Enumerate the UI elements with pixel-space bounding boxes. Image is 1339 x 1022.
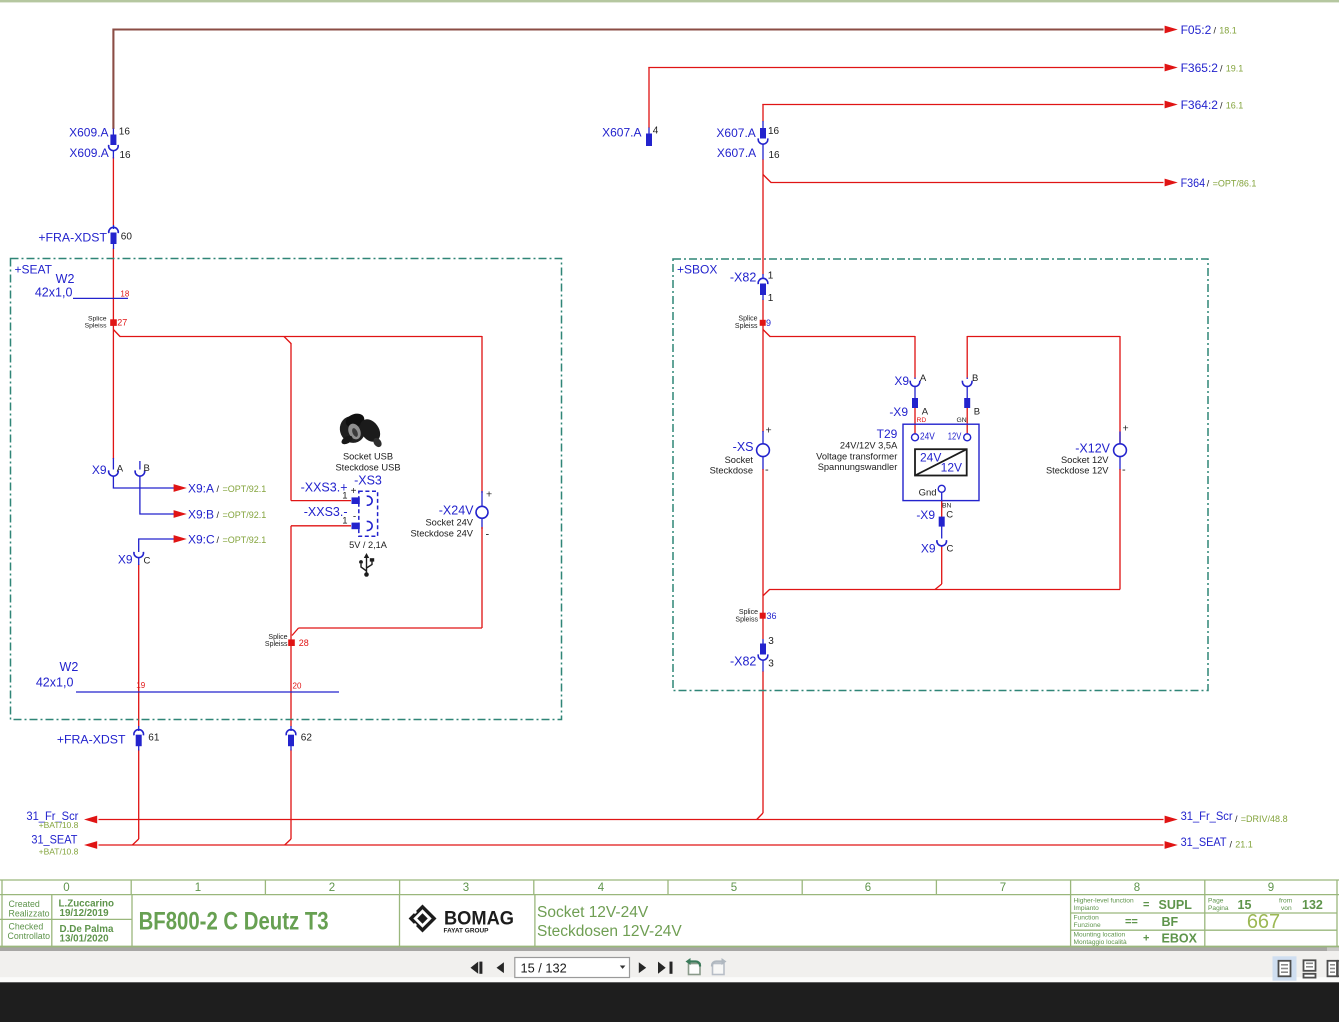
svg-text:+: + — [351, 486, 357, 497]
splice 9 — [760, 320, 766, 326]
svg-text:9: 9 — [1268, 882, 1274, 894]
wire: -XS blue stub bottom — [762, 456, 764, 470]
svg-text:Steckdose 12V: Steckdose 12V — [1046, 466, 1109, 476]
connector +FRA-XDST pin 62 — [286, 726, 296, 751]
svg-text:Page: Page — [1208, 898, 1224, 905]
svg-text:6: 6 — [865, 882, 871, 894]
svg-text:F05:2: F05:2 — [1181, 23, 1212, 37]
socket -X24V circle — [476, 506, 488, 518]
wire: -X24V minus down — [481, 527, 483, 628]
wire: -X82:1 down to splice 9 — [762, 300, 764, 321]
continuous scrolling view button — [1304, 960, 1316, 977]
svg-text:-: - — [486, 528, 490, 540]
svg-text:-XXS3.-: -XXS3.- — [304, 505, 348, 519]
connector X9 cup C — [134, 552, 144, 565]
svg-text:W2: W2 — [60, 660, 79, 674]
svg-text:A: A — [117, 463, 124, 474]
svg-text:=DRIV/48.8: =DRIV/48.8 — [1241, 814, 1288, 824]
wire: F364:2 horizontal — [762, 104, 1163, 106]
svg-text:-X82: -X82 — [730, 270, 756, 284]
two page view button (clipped) — [1328, 961, 1339, 977]
svg-text:C: C — [946, 509, 953, 520]
svg-text:4: 4 — [598, 882, 605, 894]
connector +FRA-XDST pin 61 — [134, 726, 144, 751]
svg-text:=OPT/86.1: =OPT/86.1 — [1213, 179, 1257, 189]
connector X609.A pin 16 (pin + cup) — [109, 129, 119, 159]
svg-text:12V: 12V — [941, 460, 962, 474]
svg-text:-XXS3.+: -XXS3.+ — [301, 480, 348, 494]
svg-text:31_SEAT: 31_SEAT — [31, 833, 78, 847]
contact -XXS3.- (pin + cup) — [352, 521, 373, 530]
splice 36 — [760, 613, 766, 619]
svg-text:-: - — [353, 512, 356, 523]
wire: X609.A:16 down to +FRA-XDST:60 — [112, 157, 114, 226]
photo: USB socket — [336, 411, 385, 448]
single page view button (active) — [1273, 956, 1297, 980]
svg-text:18.1: 18.1 — [1219, 26, 1237, 36]
wire: F365 branch vertical at X607.A pin 4 — [648, 68, 650, 129]
gray band below sheet — [0, 947, 1339, 951]
wire: vertical from F364:2 down to X607.A pin 16 — [762, 105, 764, 122]
svg-text:Gnd: Gnd — [919, 488, 937, 499]
svg-text:=OPT/92.1: =OPT/92.1 — [223, 510, 267, 520]
svg-text:19/12/2019: 19/12/2019 — [60, 908, 110, 919]
svg-text:8: 8 — [1134, 882, 1140, 894]
splice 28 — [288, 639, 295, 646]
svg-text:C: C — [144, 556, 151, 567]
svg-text:Impianto: Impianto — [1074, 905, 1100, 912]
svg-text:16: 16 — [119, 127, 131, 138]
svg-text:F364:2: F364:2 — [1181, 98, 1219, 112]
next view icon (disabled) — [712, 958, 727, 975]
svg-text:Montaggio località: Montaggio località — [1074, 939, 1127, 946]
svg-text:Steckdosen 12V-24V: Steckdosen 12V-24V — [537, 923, 682, 940]
svg-text:Socket 12V-24V: Socket 12V-24V — [537, 904, 649, 921]
svg-text:1: 1 — [768, 293, 774, 304]
svg-text:42x1,0: 42x1,0 — [36, 676, 74, 690]
connector X607.A pin 16 (pin + cup) — [758, 121, 768, 160]
svg-text:28: 28 — [299, 638, 309, 648]
contact -XXS3.+ (pin + cup) — [352, 496, 373, 505]
svg-text:X9:A: X9:A — [188, 481, 214, 495]
svg-text:16: 16 — [769, 150, 781, 161]
svg-text:Voltage transformer: Voltage transformer — [816, 452, 897, 462]
transformer symbol (rect + diagonal) — [915, 449, 967, 475]
wire: -X12V blue stub bottom — [1119, 457, 1121, 471]
wire: +FRA-XDST:60 down to splice 27 — [112, 249, 114, 320]
svg-text:X9: X9 — [921, 542, 936, 556]
svg-text:24V: 24V — [920, 451, 941, 465]
svg-text:=: = — [1143, 899, 1149, 911]
dark bottom bar — [0, 982, 1339, 1022]
svg-text:from: from — [1279, 898, 1293, 905]
previous page button — [497, 962, 504, 973]
column numbers — [63, 882, 1274, 894]
svg-text:BF: BF — [1162, 915, 1179, 929]
svg-text:4: 4 — [653, 126, 659, 137]
svg-text:3: 3 — [768, 658, 774, 669]
svg-text:3: 3 — [463, 882, 469, 894]
svg-text:+FRA-XDST: +FRA-XDST — [38, 230, 107, 244]
svg-text:-XS3: -XS3 — [354, 474, 382, 488]
ref arrow F364 — [1165, 179, 1178, 187]
svg-text:42x1,0: 42x1,0 — [35, 285, 73, 299]
title block table — [0, 880, 1339, 947]
svg-text:+BAT/10.8: +BAT/10.8 — [39, 820, 79, 830]
svg-text:Splice: Splice — [738, 316, 757, 323]
svg-text:Higher-level function: Higher-level function — [1074, 898, 1134, 905]
wire: +24V distribution rail in +SEAT — [120, 336, 483, 338]
wire: F365:2 horizontal — [648, 67, 1163, 69]
wire: X9:B cup to ref arrow (blue) — [140, 476, 175, 514]
svg-text:SUPL: SUPL — [1159, 898, 1193, 912]
svg-text:BF800-2 C Deutz T3: BF800-2 C Deutz T3 — [139, 907, 329, 935]
svg-text:Splice: Splice — [88, 315, 107, 322]
svg-text:Socket USB: Socket USB — [343, 451, 393, 461]
wire: 31_SEAT rail — [99, 844, 1164, 846]
svg-text:1: 1 — [195, 882, 201, 894]
wire: splice 9 branch diagonal — [763, 330, 770, 337]
svg-text:16: 16 — [768, 126, 780, 137]
svg-text:5: 5 — [731, 882, 737, 894]
ref arrow X9:A — [174, 484, 187, 492]
svg-text:3: 3 — [768, 636, 774, 647]
wire: F364 horizontal — [771, 182, 1164, 184]
svg-text:EBOX: EBOX — [1162, 932, 1198, 946]
wire: T29 X9:B pin to 12V terminal — [966, 408, 968, 434]
wire: -XXS3.- vertical down to splice 28 — [290, 526, 292, 640]
connector -X9 pin B — [964, 398, 970, 408]
svg-text:BOMAG: BOMAG — [444, 908, 514, 930]
svg-text:von: von — [1281, 905, 1292, 912]
wire: vertical at x=482 down to -X24V + — [481, 336, 483, 493]
ref arrow 31_SEAT (right) — [1165, 841, 1178, 849]
svg-text:==: == — [1125, 916, 1138, 928]
connector X607.A pin 4 — [648, 128, 650, 135]
svg-text:60: 60 — [121, 232, 133, 243]
svg-text:36: 36 — [767, 611, 777, 621]
terminal Gnd circle — [938, 485, 945, 492]
connector -X82 pin 3 (pin + cup) — [758, 639, 768, 672]
connector X9 cup B — [135, 461, 145, 476]
wire: -X82:3 down out of +SBOX to 31_Fr_Scr rail — [762, 671, 764, 813]
svg-text:16.1: 16.1 — [1226, 101, 1244, 111]
svg-text:+SBOX: +SBOX — [677, 262, 717, 276]
svg-text:0: 0 — [63, 882, 69, 894]
ref arrow F364:2 — [1165, 101, 1178, 109]
ref arrow X9:B — [174, 510, 187, 518]
connector X9 cup A — [109, 458, 119, 476]
svg-text:7: 7 — [1000, 882, 1006, 894]
wire: splice 27 branch diagonal — [113, 330, 120, 337]
svg-text:RD: RD — [917, 417, 927, 424]
ref arrow 31_Fr_Scr (right) — [1165, 816, 1178, 824]
svg-text:Splice: Splice — [739, 609, 758, 616]
wire: T29 Gnd down to -X9:C — [941, 501, 943, 517]
svg-text:Steckdose USB: Steckdose USB — [335, 463, 400, 473]
svg-text:+: + — [766, 424, 772, 436]
ref arrow F365:2 — [1165, 64, 1178, 72]
wire: +FRA-XDST:61 down to 31_SEAT rail — [138, 750, 140, 840]
svg-text:Socket 12V: Socket 12V — [1061, 455, 1109, 465]
ref arrow 31_SEAT (left) — [84, 841, 97, 849]
svg-text:Socket: Socket — [725, 455, 754, 465]
wire: 31_Fr_Scr rail — [99, 819, 1164, 821]
first page button — [471, 962, 483, 974]
svg-text:-X9: -X9 — [889, 405, 908, 419]
svg-text:21.1: 21.1 — [1235, 840, 1253, 850]
wire: horizontal from -XXS3.- pin — [291, 525, 351, 527]
svg-text:Funzione: Funzione — [1074, 922, 1101, 929]
page number input — [515, 958, 630, 978]
socket -X12V circle — [1114, 444, 1127, 457]
svg-text:31_SEAT: 31_SEAT — [1181, 835, 1228, 849]
svg-text:15 / 132: 15 / 132 — [521, 960, 567, 975]
wire: T29 Gnd terminal down (blue stub) — [941, 492, 943, 502]
toolbar background — [0, 951, 1339, 977]
svg-text:X9:B: X9:B — [188, 507, 214, 521]
svg-text:19: 19 — [136, 681, 145, 690]
wire: -X24V blue stub bottom — [481, 518, 483, 529]
svg-text:Mounting location: Mounting location — [1074, 932, 1126, 939]
svg-text:X607.A: X607.A — [716, 126, 755, 140]
svg-text:-: - — [765, 464, 769, 476]
wire: drop to X9:A cup (T29) — [914, 336, 916, 378]
terminal 24V circle — [912, 434, 919, 441]
wire: jog onto SBOX ground rail — [935, 584, 942, 590]
wire: splice 28 down through W2 to +FRA-XDST:62 — [290, 646, 292, 727]
svg-text:62: 62 — [301, 733, 313, 744]
wire: horizontal into -XXS3.+ pin — [291, 500, 351, 502]
ref arrow X9:C — [174, 535, 187, 543]
connector -X82 pin 1 (cup above + pin) — [758, 274, 768, 300]
wire: +FRA-XDST:62 down to 31_SEAT rail — [290, 750, 292, 840]
wire: X9:C (SBOX) cup down — [941, 546, 943, 584]
wire: splice 27 down to X9:A cup — [112, 326, 114, 460]
svg-text:X9: X9 — [894, 374, 909, 388]
scrollbar corner notch — [1327, 947, 1339, 951]
svg-text:=OPT/92.1: =OPT/92.1 — [223, 535, 267, 545]
wire: X9:C red down through W2 to +FRA-XDST:61 — [138, 564, 140, 727]
svg-text:5V / 2,1A: 5V / 2,1A — [349, 540, 388, 550]
wire: drop to X9:B cup (T29) — [966, 336, 968, 378]
sheet top border line — [0, 0, 1339, 2]
svg-text:+FRA-XDST: +FRA-XDST — [57, 733, 126, 747]
wire: -X24V return horizontal — [299, 627, 483, 629]
svg-text:X9: X9 — [118, 553, 133, 567]
svg-text:F364: F364 — [1181, 176, 1206, 190]
svg-text:C: C — [947, 544, 954, 555]
wire: -X24V blue stub top — [481, 491, 483, 507]
splice 27 — [110, 319, 117, 326]
next page button — [639, 962, 646, 973]
cable W2 top line — [73, 297, 128, 299]
voltage transformer T29 box — [903, 424, 979, 500]
wire: jog onto 31_SEAT rail (61) — [132, 839, 138, 845]
svg-text:=OPT/92.1: =OPT/92.1 — [223, 484, 267, 494]
svg-text:1: 1 — [342, 490, 347, 501]
wire: X9:A cup to ref arrow (blue) — [113, 476, 174, 488]
svg-text:-X24V: -X24V — [439, 504, 474, 518]
svg-text:Function: Function — [1074, 915, 1100, 922]
svg-text:Realizzato: Realizzato — [9, 909, 50, 919]
dropdown arrow — [620, 966, 626, 969]
svg-text:FAYAT GROUP: FAYAT GROUP — [444, 928, 490, 935]
svg-text:Spleiss: Spleiss — [735, 323, 758, 330]
svg-text:Spannungswandler: Spannungswandler — [818, 462, 898, 472]
svg-text:15: 15 — [1238, 898, 1252, 912]
svg-text:667: 667 — [1247, 911, 1280, 933]
wire: jog from ground rail to main drop — [763, 590, 769, 596]
location box +SEAT — [11, 259, 562, 720]
svg-text:GN: GN — [957, 417, 967, 424]
wire: 24V rail to T29 X9:A — [770, 336, 916, 338]
svg-text:Spleiss: Spleiss — [265, 641, 288, 648]
svg-text:A: A — [922, 407, 929, 418]
last page button — [658, 962, 673, 974]
cable W2 bottom line — [76, 691, 339, 693]
svg-text:X609.A: X609.A — [69, 125, 108, 139]
connector -X9 pin C — [939, 517, 945, 527]
wire: brown vertical drop to X609.A — [112, 29, 114, 130]
wire: jog onto 31_Fr_Scr rail — [757, 813, 763, 820]
device outline -XS3 (dashed) — [359, 491, 378, 536]
svg-text:+: + — [1143, 933, 1149, 945]
svg-text:A: A — [920, 373, 927, 384]
ref arrow 31_Fr_Scr (left) — [84, 816, 97, 824]
USB symbol — [359, 553, 374, 577]
svg-text:Spleiss: Spleiss — [85, 323, 108, 330]
wire: X9:C ref arrow to cup (blue) — [139, 539, 175, 552]
svg-text:+: + — [486, 489, 492, 501]
svg-text:W2: W2 — [56, 272, 75, 286]
wire: F05 feed (brown) horizontal to F05:2 — [113, 28, 1163, 30]
svg-text:X9: X9 — [92, 463, 107, 477]
svg-text:2: 2 — [329, 882, 335, 894]
svg-text:Socket 24V: Socket 24V — [425, 517, 473, 527]
svg-text:61: 61 — [148, 733, 160, 744]
svg-text:16: 16 — [120, 150, 132, 161]
wire: vertical down to -XXS3.+ — [290, 343, 292, 501]
svg-text:9: 9 — [766, 318, 771, 328]
wire: splice 36 down to -X82:3 — [762, 618, 764, 639]
svg-text:B: B — [974, 407, 980, 418]
svg-text:X609.A: X609.A — [69, 146, 108, 160]
wire: branch diagonal to -XXS3 at x=291 — [284, 337, 291, 344]
wire: return diagonal into splice 28 — [292, 628, 299, 636]
svg-text:-XS: -XS — [733, 440, 754, 454]
svg-text:-X82: -X82 — [730, 655, 756, 669]
svg-text:-X9: -X9 — [916, 508, 935, 522]
svg-text:1: 1 — [768, 271, 774, 282]
wire: -XS blue stub top — [762, 431, 764, 445]
wire: -X12V blue stub top — [1119, 432, 1121, 446]
socket -XS circle — [757, 444, 770, 457]
wire: jog onto 31_SEAT rail (62) — [285, 839, 291, 845]
svg-text:13/01/2020: 13/01/2020 — [60, 934, 110, 945]
svg-text:X607.A: X607.A — [717, 146, 756, 160]
svg-text:27: 27 — [117, 318, 127, 328]
wire: -XS minus down to splice 36 — [762, 469, 764, 613]
svg-text:Steckdose: Steckdose — [710, 466, 753, 476]
connector X9 cup A (SBOX) — [910, 378, 920, 399]
svg-text:19.1: 19.1 — [1226, 64, 1244, 74]
svg-text:F365:2: F365:2 — [1181, 61, 1219, 75]
connector +FRA-XDST pin 60 (cup above + pin) — [109, 225, 119, 249]
connector -X9 pin A — [912, 398, 918, 408]
svg-text:X607.A: X607.A — [602, 126, 641, 140]
svg-text:31_Fr_Scr: 31_Fr_Scr — [1181, 809, 1233, 823]
svg-text:+SEAT: +SEAT — [15, 262, 53, 276]
svg-text:-X12V: -X12V — [1075, 442, 1110, 456]
connector X9 cup C (SBOX) — [937, 527, 947, 548]
svg-text:Pagina: Pagina — [1208, 905, 1229, 912]
svg-text:20: 20 — [293, 682, 302, 691]
svg-text:24V: 24V — [920, 431, 935, 442]
wire: splice 9 down to -XS + — [762, 326, 764, 433]
svg-text:+BAT/10.8: +BAT/10.8 — [39, 847, 79, 857]
connector X9 cup B (SBOX) — [962, 378, 972, 399]
svg-text:Controllato: Controllato — [8, 931, 51, 941]
ref arrow F05:2 — [1165, 26, 1178, 34]
terminal 12V circle — [964, 434, 971, 441]
BOMAG logo — [408, 904, 436, 932]
svg-text:T29: T29 — [877, 427, 898, 441]
wire: SBOX ground rail — [769, 589, 1120, 591]
wire: F364 branch diagonal — [763, 175, 771, 183]
wire: -X12V vertical from rail — [1119, 336, 1121, 445]
svg-text:132: 132 — [1302, 898, 1323, 912]
wire: -X12V minus down to ground rail — [1119, 469, 1121, 590]
svg-text:18: 18 — [120, 289, 129, 298]
svg-text:Steckdose 24V: Steckdose 24V — [410, 529, 473, 539]
svg-text:12V: 12V — [948, 431, 962, 442]
location box +SBOX — [673, 259, 1208, 691]
wire: T29 X9:A pin to 24V terminal — [914, 408, 916, 434]
wire: X607.A:16 down to -X82:1 — [762, 159, 764, 275]
svg-text:+: + — [1123, 423, 1129, 435]
svg-text:1: 1 — [342, 516, 347, 527]
previous view icon — [686, 958, 701, 975]
svg-text:24V/12V 3,5A: 24V/12V 3,5A — [840, 440, 898, 450]
wire: 12V rail from X9:B to -X12V — [967, 336, 1120, 338]
svg-text:B: B — [144, 463, 150, 474]
svg-text:B: B — [972, 373, 978, 384]
svg-text:X9:C: X9:C — [188, 532, 215, 546]
svg-text:Splice: Splice — [268, 634, 287, 641]
svg-text:-: - — [1122, 464, 1126, 476]
svg-text:Spleiss: Spleiss — [735, 616, 758, 623]
